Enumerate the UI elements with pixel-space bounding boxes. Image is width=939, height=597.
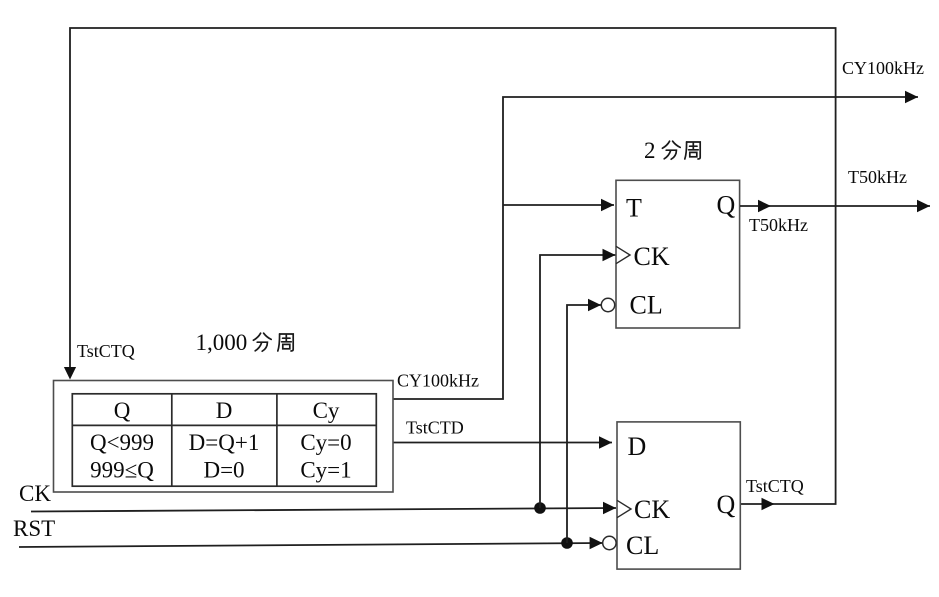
svg-text:CY100kHz: CY100kHz bbox=[842, 58, 924, 78]
svg-text:CK: CK bbox=[634, 242, 670, 271]
svg-text:TstCTQ: TstCTQ bbox=[77, 341, 135, 361]
wire: TstCTQ feedback loop (D-FF Q up over the top to counter input) bbox=[64, 28, 836, 510]
arrowhead on Q output wire bbox=[762, 498, 775, 510]
svg-text:T: T bbox=[626, 194, 642, 223]
svg-text:CK: CK bbox=[19, 481, 51, 506]
svg-text:D: D bbox=[216, 398, 233, 423]
svg-text:D: D bbox=[628, 432, 647, 461]
T flip-flop U1 (2 bunshu) bbox=[616, 180, 740, 328]
label 2 分周 bbox=[644, 138, 700, 163]
junction dot on CK line bbox=[534, 502, 546, 514]
label 1,000 分周 bbox=[196, 330, 294, 355]
svg-text:Cy=0: Cy=0 bbox=[300, 430, 351, 455]
wire: RST branch up to T-FF CL bbox=[567, 299, 601, 543]
wire: CK line to D-FF CK bbox=[31, 502, 616, 514]
svg-text:CK: CK bbox=[634, 495, 670, 524]
svg-text:D=Q+1: D=Q+1 bbox=[189, 430, 260, 455]
truth table bbox=[72, 394, 376, 486]
svg-text:TstCTD: TstCTD bbox=[406, 418, 464, 438]
svg-text:TstCTQ: TstCTQ bbox=[746, 476, 804, 496]
wire: branch to T input of T-FF bbox=[503, 199, 614, 211]
svg-text:CL: CL bbox=[626, 531, 659, 560]
counter block 1,000 bunshu (outer box) bbox=[54, 381, 394, 493]
svg-text:2: 2 bbox=[644, 138, 656, 163]
svg-text:Q: Q bbox=[717, 191, 736, 220]
arrowhead into counter box top bbox=[64, 367, 76, 380]
svg-text:D=0: D=0 bbox=[203, 458, 244, 483]
wire: CY100kHz from counter to top-right output arrow bbox=[393, 91, 918, 399]
clock wedge (T-FF) bbox=[616, 246, 630, 263]
inverter bubble (D-FF CL) bbox=[603, 536, 616, 549]
svg-text:CL: CL bbox=[630, 291, 663, 320]
svg-text:Q: Q bbox=[114, 398, 131, 423]
svg-text:1,000: 1,000 bbox=[196, 330, 248, 355]
wire: TstCTD from counter to D input of D-FF bbox=[393, 436, 612, 448]
svg-text:RST: RST bbox=[13, 516, 55, 541]
svg-text:T50kHz: T50kHz bbox=[848, 167, 907, 187]
svg-text:Q: Q bbox=[717, 490, 736, 519]
svg-text:T50kHz: T50kHz bbox=[749, 215, 808, 235]
svg-text:999≤Q: 999≤Q bbox=[90, 458, 154, 483]
svg-text:Cy: Cy bbox=[313, 398, 340, 423]
svg-text:Q<999: Q<999 bbox=[90, 430, 154, 455]
inverter bubble (T-FF CL) bbox=[601, 298, 614, 311]
svg-text:CY100kHz: CY100kHz bbox=[397, 371, 479, 391]
clock wedge (D-FF) bbox=[617, 500, 631, 517]
svg-text:Cy=1: Cy=1 bbox=[300, 458, 351, 483]
junction dot on RST line bbox=[561, 537, 573, 549]
wire: RST line to D-FF CL bbox=[19, 537, 603, 549]
wire: CK branch up to T-FF CK bbox=[540, 249, 616, 508]
D flip-flop U2 bbox=[617, 422, 740, 569]
wire: T50kHz output from T-FF Q bbox=[740, 200, 930, 212]
